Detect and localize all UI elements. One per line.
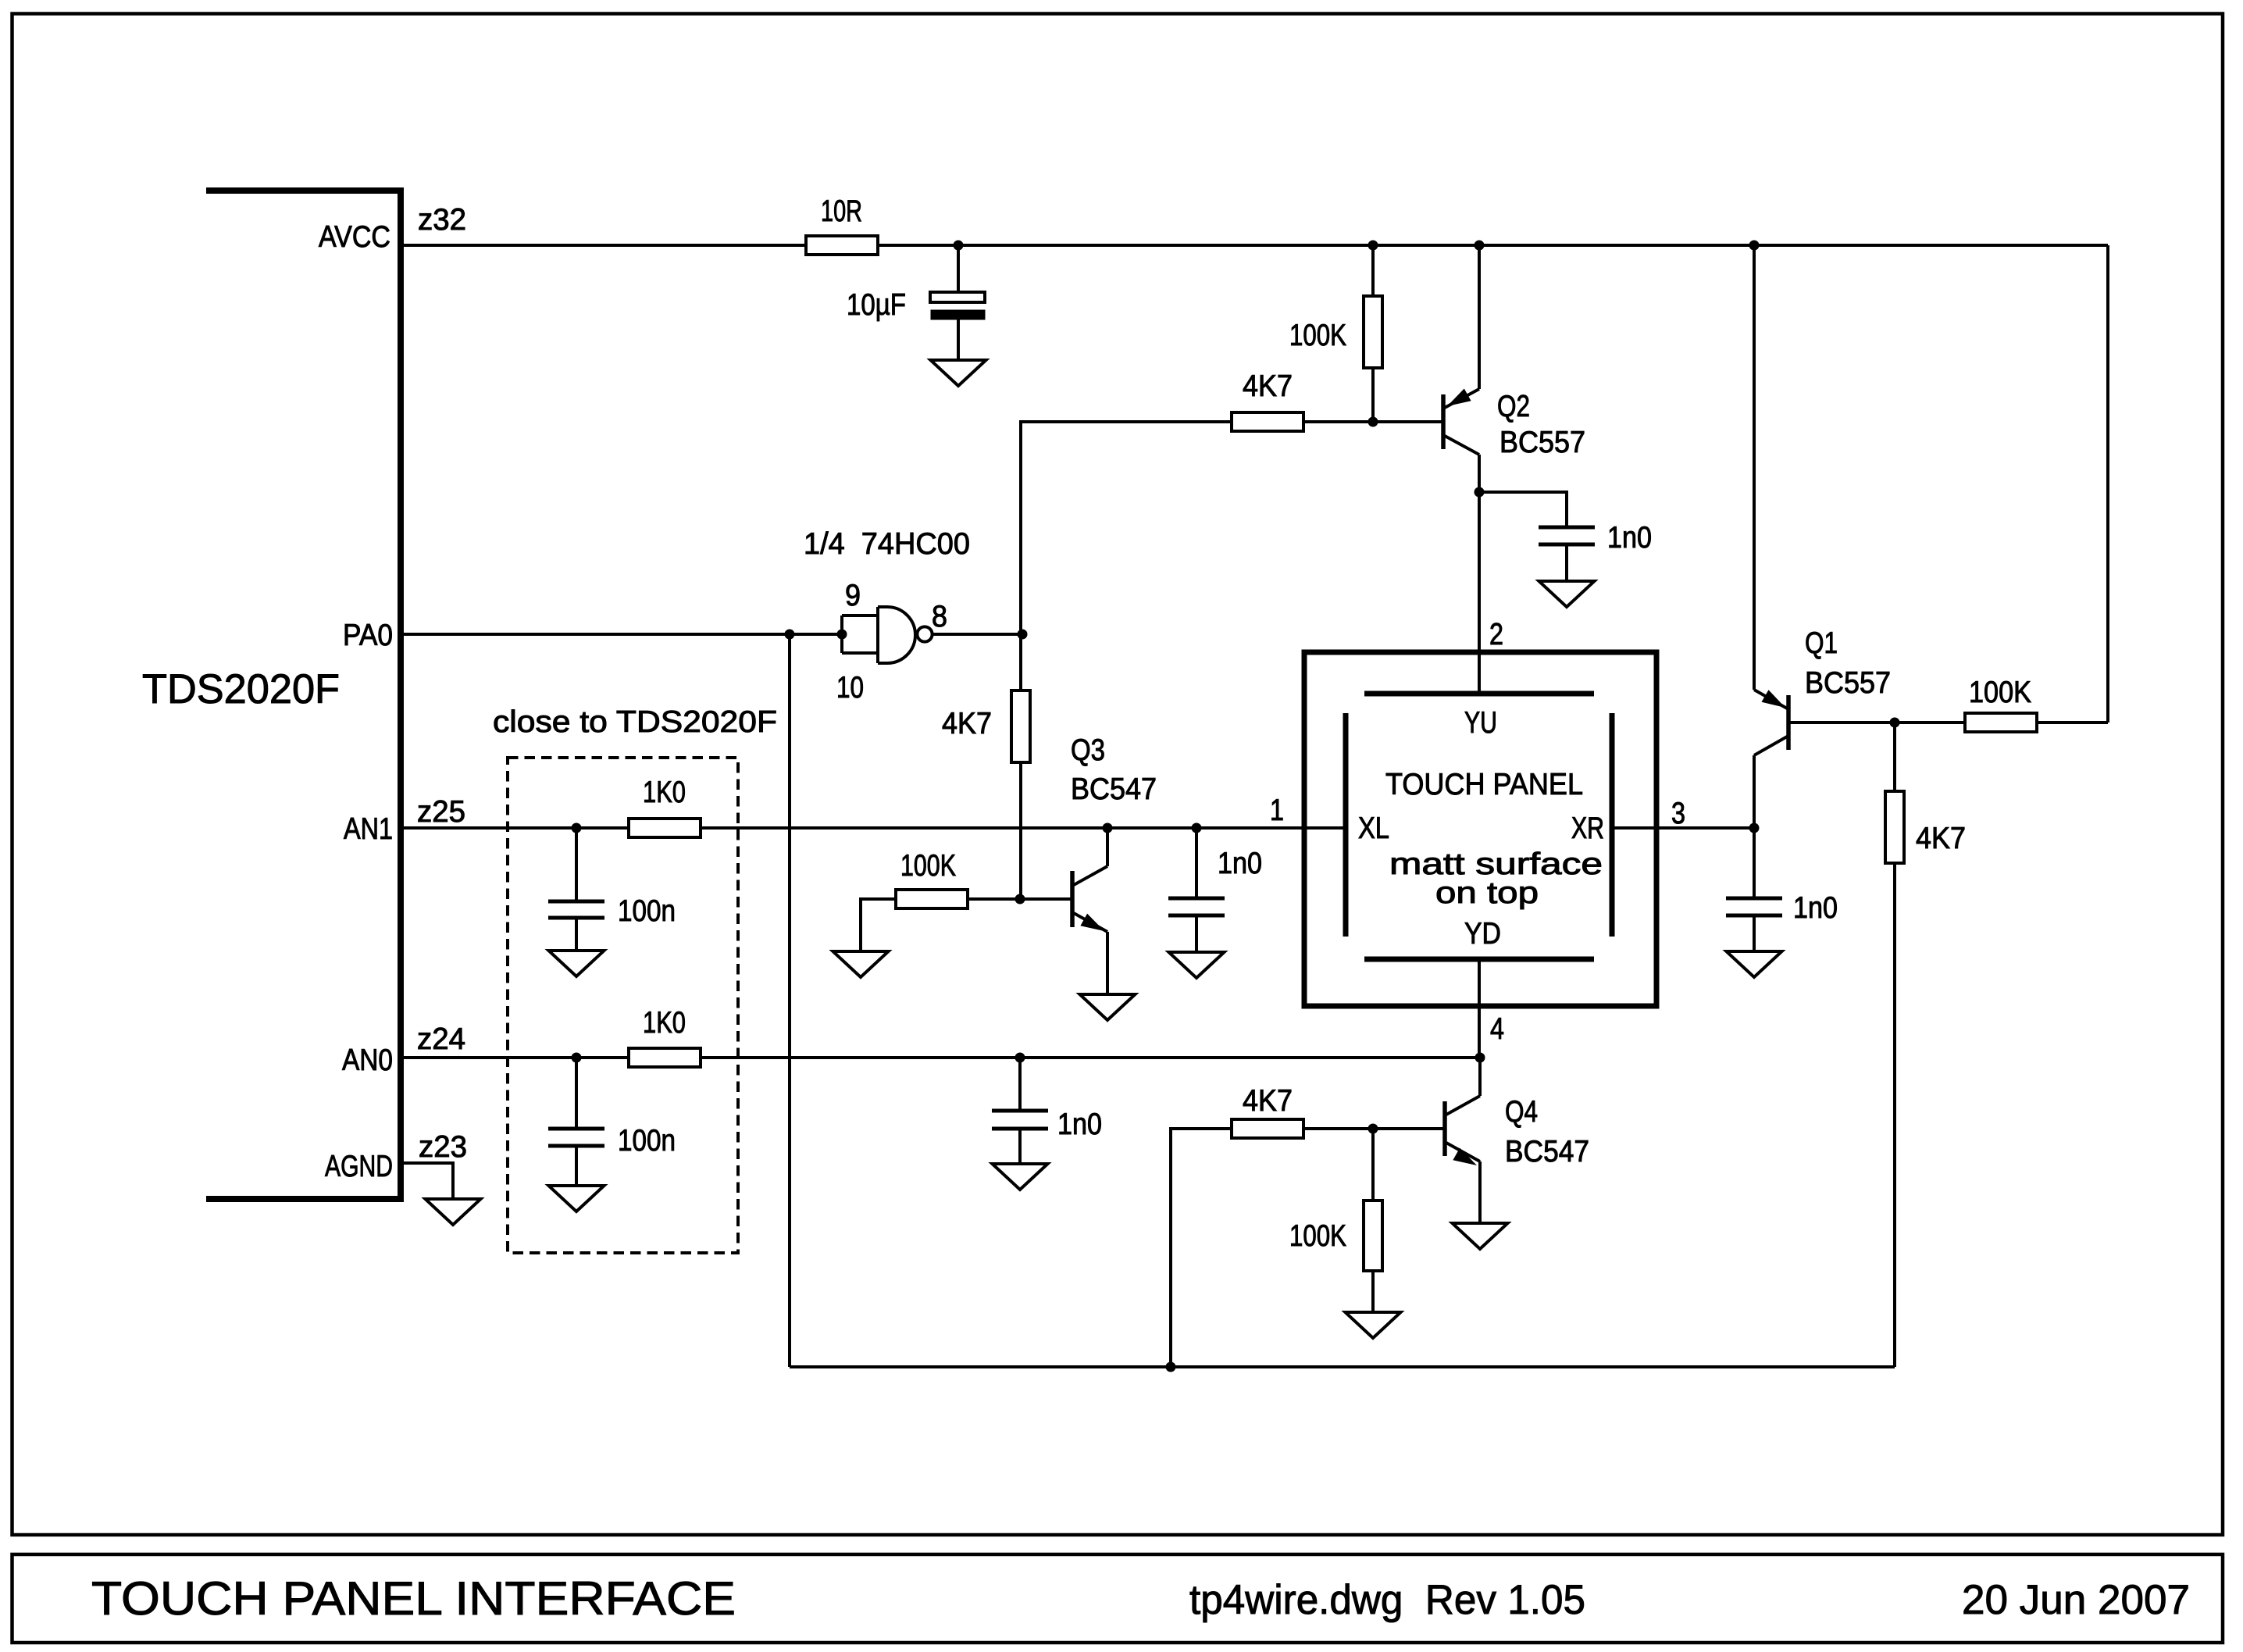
svg-text:4K7: 4K7 <box>942 707 992 740</box>
svg-text:1: 1 <box>1270 794 1284 827</box>
svg-text:TOUCH PANEL INTERFACE: TOUCH PANEL INTERFACE <box>91 1572 736 1625</box>
svg-text:tp4wire.dwg Rev 1.05: tp4wire.dwg Rev 1.05 <box>1189 1577 1585 1623</box>
svg-text:PA0: PA0 <box>343 619 393 652</box>
svg-text:1K0: 1K0 <box>643 776 686 809</box>
svg-text:4K7: 4K7 <box>1916 822 1966 855</box>
svg-text:100K: 100K <box>1289 1219 1346 1253</box>
svg-text:BC547: BC547 <box>1505 1135 1589 1169</box>
svg-text:10: 10 <box>836 671 864 705</box>
svg-text:XL: XL <box>1358 812 1389 845</box>
svg-text:YU: YU <box>1464 706 1497 740</box>
svg-text:Q3: Q3 <box>1071 733 1105 767</box>
svg-text:3: 3 <box>1671 797 1685 830</box>
svg-text:z32: z32 <box>418 203 466 237</box>
svg-text:BC557: BC557 <box>1499 426 1585 459</box>
svg-text:1n0: 1n0 <box>1607 521 1652 555</box>
svg-text:2: 2 <box>1489 618 1503 651</box>
svg-text:XR: XR <box>1571 812 1604 845</box>
svg-text:1n0: 1n0 <box>1218 847 1262 880</box>
svg-text:10µF: 10µF <box>847 288 906 322</box>
svg-text:close to TDS2020F: close to TDS2020F <box>493 705 777 739</box>
svg-text:AGND: AGND <box>325 1150 393 1183</box>
svg-text:Q1: Q1 <box>1805 626 1838 660</box>
svg-text:BC557: BC557 <box>1805 666 1891 700</box>
svg-text:TDS2020F: TDS2020F <box>142 666 340 712</box>
svg-text:100K: 100K <box>1969 676 2031 709</box>
svg-text:4K7: 4K7 <box>1243 369 1293 403</box>
svg-text:AVCC: AVCC <box>319 220 390 254</box>
svg-text:z23: z23 <box>419 1130 467 1164</box>
svg-text:1n0: 1n0 <box>1057 1108 1102 1141</box>
svg-text:100n: 100n <box>618 894 676 928</box>
svg-text:AN1: AN1 <box>344 812 393 846</box>
svg-text:z24: z24 <box>417 1022 465 1056</box>
svg-text:on top: on top <box>1435 876 1539 910</box>
svg-text:TOUCH PANEL: TOUCH PANEL <box>1385 768 1583 801</box>
svg-text:20 Jun 2007: 20 Jun 2007 <box>1962 1577 2190 1623</box>
svg-text:Q2: Q2 <box>1497 390 1530 423</box>
svg-text:YD: YD <box>1464 917 1501 951</box>
svg-text:10R: 10R <box>821 194 862 228</box>
svg-text:1n0: 1n0 <box>1793 891 1838 925</box>
svg-text:AN0: AN0 <box>342 1044 393 1077</box>
svg-text:1/4 74HC00: 1/4 74HC00 <box>804 527 970 561</box>
svg-text:8: 8 <box>932 600 947 633</box>
svg-text:4: 4 <box>1490 1012 1504 1046</box>
svg-text:BC547: BC547 <box>1071 772 1157 806</box>
svg-text:100K: 100K <box>1289 319 1346 352</box>
svg-text:100K: 100K <box>900 849 956 883</box>
svg-text:z25: z25 <box>417 795 465 829</box>
svg-text:1K0: 1K0 <box>643 1006 686 1040</box>
svg-text:100n: 100n <box>618 1124 676 1158</box>
svg-text:4K7: 4K7 <box>1243 1084 1293 1118</box>
svg-text:Q4: Q4 <box>1505 1095 1538 1129</box>
svg-text:9: 9 <box>845 579 861 612</box>
